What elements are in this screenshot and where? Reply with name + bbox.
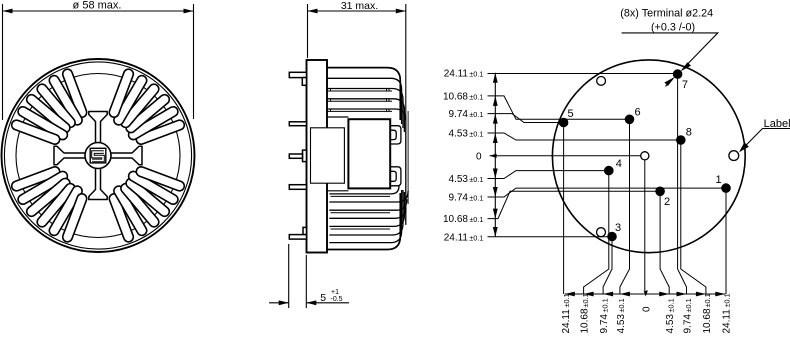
winding turn 12 [17, 125, 55, 139]
winding turn 8 [54, 80, 77, 120]
svg-text:±0.1: ±0.1 [581, 293, 590, 307]
inner core circle [16, 74, 180, 238]
svg-text:10.68: 10.68 [702, 308, 713, 333]
svg-text:6: 6 [634, 106, 640, 118]
winding body outline top [327, 61, 400, 120]
svg-text:1: 1 [715, 174, 721, 186]
svg-text:24.11: 24.11 [444, 233, 469, 244]
svg-text:±0.1: ±0.1 [469, 234, 483, 243]
left dimension column labels [443, 68, 483, 243]
svg-text:±0.1: ±0.1 [469, 130, 483, 139]
svg-text:10.68: 10.68 [580, 308, 591, 333]
winding turn 7 [68, 74, 82, 112]
svg-text:±0.1: ±0.1 [469, 92, 483, 101]
svg-text:+1: +1 [331, 289, 339, 296]
winding turn 15 [32, 183, 66, 211]
mounting hole bottom-left [597, 228, 606, 237]
center hub circle [85, 143, 111, 169]
svg-text:9.74: 9.74 [599, 314, 610, 334]
winding turn 5 [119, 80, 142, 120]
svg-text:31 max.: 31 max. [341, 0, 378, 12]
label note [739, 118, 790, 152]
left view: toroidal choke front face [2, 0, 195, 252]
winding turn 9 [42, 89, 70, 123]
svg-text:24.11: 24.11 [444, 68, 469, 79]
svg-text:(+0.3 /-0): (+0.3 /-0) [651, 22, 695, 34]
right side bulge lines [407, 111, 409, 204]
winding turn 2 [133, 112, 173, 135]
winding turn 10 [32, 100, 66, 128]
winding turn 16 [42, 188, 70, 222]
outer ring [2, 59, 195, 252]
winding turn 24 [141, 172, 179, 186]
left dimension line with arrows [493, 73, 498, 237]
winding turn 3 [131, 100, 165, 128]
svg-text:10.68: 10.68 [443, 214, 468, 225]
winding turn 18 [68, 199, 82, 237]
winding turn 21 [126, 188, 154, 222]
terminal pin 5 (bottom) [289, 227, 306, 239]
winding turn 22 [131, 183, 165, 211]
svg-text:ø 58 max.: ø 58 max. [73, 0, 122, 11]
svg-text:0: 0 [476, 151, 482, 162]
svg-text:2: 2 [664, 196, 670, 208]
svg-text:24.11: 24.11 [721, 309, 732, 334]
winding turn 1 [141, 125, 179, 139]
svg-text:-0.5: -0.5 [331, 296, 343, 303]
winding turn 23 [133, 176, 173, 199]
svg-text:4.53: 4.53 [449, 174, 469, 185]
center cross arm W [54, 146, 86, 164]
svg-text:9.74: 9.74 [683, 314, 694, 334]
svg-text:3: 3 [615, 222, 621, 234]
svg-text:±0.1: ±0.1 [469, 194, 483, 203]
svg-text:9.74: 9.74 [449, 109, 469, 120]
svg-text:±0.1: ±0.1 [684, 298, 693, 312]
outer ring inner line [4, 62, 191, 249]
svg-text:24.11: 24.11 [561, 309, 572, 334]
label hole [729, 151, 739, 161]
terminals 1-8 [559, 70, 730, 241]
svg-text:10.68: 10.68 [443, 91, 468, 102]
winding turn 14 [23, 176, 63, 199]
bottom dimension line with arrows [565, 292, 726, 297]
winding turn boundaries [327, 89, 392, 112]
svg-text:4.53: 4.53 [449, 129, 469, 140]
svg-text:4.53: 4.53 [616, 314, 627, 334]
svg-text:±0.1: ±0.1 [600, 298, 609, 312]
center reference hole 0 [641, 152, 649, 160]
dimension 31 max. [308, 0, 406, 120]
leader lines left labels to terminals [488, 74, 727, 237]
svg-text:7: 7 [682, 79, 688, 91]
svg-text:9.74: 9.74 [449, 193, 469, 204]
Schaffner S logo [90, 148, 106, 163]
bottom winding turns [329, 186, 408, 243]
svg-text:±0.1: ±0.1 [469, 215, 483, 224]
svg-text:±0.1: ±0.1 [469, 69, 483, 78]
core ledges [327, 117, 348, 191]
winding turn 6 [114, 74, 128, 112]
svg-text:8: 8 [686, 127, 692, 139]
svg-text:±0.1: ±0.1 [469, 175, 483, 184]
bottom dimension labels (rotated) [561, 293, 733, 333]
mounting plate [307, 60, 328, 253]
winding turn 20 [119, 191, 142, 231]
top winding turns [327, 78, 406, 225]
svg-text:5: 5 [320, 292, 326, 304]
svg-text:±0.1: ±0.1 [667, 298, 676, 312]
svg-text:±0.1: ±0.1 [469, 110, 483, 119]
middle wire turn lower [390, 167, 401, 186]
center cross arm E [111, 146, 143, 164]
mounting hole top-left [597, 77, 606, 86]
core retainer plate [311, 128, 345, 183]
winding turn 11 [23, 112, 63, 135]
core cross-section [348, 119, 390, 188]
winding turn 17 [54, 191, 77, 231]
svg-text:0: 0 [642, 306, 653, 312]
terminal pin 2 [289, 122, 306, 126]
terminal pin 1 (top) [289, 72, 306, 85]
body circle [552, 60, 745, 253]
center cross arm N [89, 112, 107, 144]
winding turn 13 [17, 172, 55, 186]
svg-text:4: 4 [616, 158, 622, 170]
svg-text:±0.1: ±0.1 [703, 293, 712, 307]
svg-text:(8x) Terminal ø2.24: (8x) Terminal ø2.24 [620, 7, 713, 19]
terminal pin 3 (middle) [289, 150, 306, 162]
svg-text:±0.1: ±0.1 [562, 293, 571, 307]
winding turn 4 [126, 89, 154, 123]
terminal drop lines [564, 74, 726, 296]
winding body outline bottom [327, 193, 400, 251]
side view: choke on mounting plate [269, 0, 408, 308]
terminal pin 4 [289, 185, 306, 190]
center cross arm S [89, 168, 107, 200]
winding turn 19 [114, 199, 128, 237]
svg-text:±0.1: ±0.1 [723, 293, 732, 307]
svg-text:5: 5 [568, 108, 574, 120]
middle wire turn upper [390, 126, 401, 144]
dimension ø 58 max. [3, 0, 194, 120]
right view: bottom terminal layout [443, 7, 790, 333]
terminal diameter note [620, 7, 718, 86]
dimension 5 +1/-0.5 (pin length) [269, 244, 349, 308]
svg-text:±0.1: ±0.1 [617, 298, 626, 312]
svg-text:4.53: 4.53 [665, 314, 676, 334]
